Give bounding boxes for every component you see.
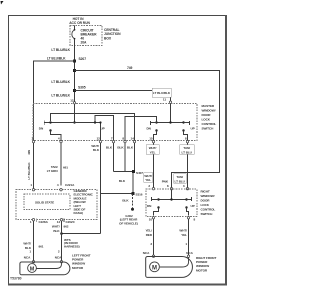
svg-text:UP: UP xyxy=(101,127,105,131)
svg-text:BLK: BLK xyxy=(106,146,113,150)
svg-text:M: M xyxy=(152,265,157,271)
svg-text:DASH): DASH) xyxy=(74,211,83,215)
splice S207 xyxy=(73,60,76,63)
svg-text:NCA: NCA xyxy=(143,251,150,255)
wire BLK pin14 xyxy=(134,143,136,172)
svg-text:962: 962 xyxy=(64,224,69,228)
svg-text:BLK: BLK xyxy=(122,199,129,203)
svg-text:T53780: T53780 xyxy=(10,277,22,281)
svg-text:S316: S316 xyxy=(136,192,143,196)
svg-text:SWITCH: SWITCH xyxy=(202,127,215,131)
master window/door lock control switch (dashed box) xyxy=(33,104,197,141)
UP fixed contact xyxy=(189,121,191,125)
svg-text:LT BLU/BLK: LT BLU/BLK xyxy=(153,91,171,95)
svg-text:M: M xyxy=(30,266,35,272)
svg-text:MOTOR: MOTOR xyxy=(72,266,84,270)
svg-text:749: 749 xyxy=(127,66,133,70)
svg-text:WINDOW/: WINDOW/ xyxy=(202,109,216,113)
svg-text:UP: UP xyxy=(191,204,195,208)
svg-text:RIGHT: RIGHT xyxy=(201,190,210,194)
upper pivot bus xyxy=(51,114,135,141)
svg-text:WINDOW/: WINDOW/ xyxy=(201,194,215,198)
wire 749 (to right side, down and across to right window switch) xyxy=(75,71,220,189)
svg-text:BOX: BOX xyxy=(104,36,112,40)
svg-text:14: 14 xyxy=(131,137,135,141)
svg-text:499: 499 xyxy=(27,150,31,155)
pin 11 riser xyxy=(170,104,172,123)
wire LT BLU/BLK to pin 11 xyxy=(75,91,171,101)
svg-text:10: 10 xyxy=(149,218,153,222)
GEM generic electronic module (dashed box) xyxy=(16,190,97,220)
svg-text:BLK: BLK xyxy=(127,146,134,150)
wire WHT/BLK 961 (GEM to left motor) xyxy=(33,221,35,262)
svg-text:UP: UP xyxy=(191,127,195,131)
contact row xyxy=(44,122,100,124)
label HOT IN ACC OR RUN xyxy=(69,17,90,25)
wire LT BLU/BLK main feed (breaker down to master switch) xyxy=(74,46,76,102)
circuit breaker CB 40 20A symbol xyxy=(74,26,76,30)
svg-text:DOOR: DOOR xyxy=(201,199,211,203)
svg-text:BLK: BLK xyxy=(93,148,100,152)
left front power window motor xyxy=(20,262,70,275)
wire WHT/YEL (master to right window switch) xyxy=(153,143,155,188)
svg-text:BLK: BLK xyxy=(119,179,126,183)
svg-text:MASTER: MASTER xyxy=(202,104,215,108)
master switch bottom pin connectors xyxy=(32,140,188,142)
svg-text:961: 961 xyxy=(39,244,44,248)
splice S407 (BLK grounds join) xyxy=(114,171,135,173)
svg-text:LT BLU/BLK: LT BLU/BLK xyxy=(27,162,31,180)
svg-text:CONTROL: CONTROL xyxy=(201,208,216,212)
svg-text:YEL: YEL xyxy=(150,150,156,154)
svg-text:CONTROL: CONTROL xyxy=(202,122,217,126)
svg-text:RED: RED xyxy=(146,233,153,237)
feed riser xyxy=(74,104,76,123)
BLK wire joins GEM output (to left motor) xyxy=(62,233,101,235)
wire BLK pin8 xyxy=(124,143,126,172)
svg-text:14: 14 xyxy=(57,220,61,224)
svg-text:S207: S207 xyxy=(79,57,87,61)
contact bus xyxy=(157,122,184,124)
svg-text:MOTOR: MOTOR xyxy=(196,268,208,272)
svg-text:DOOR: DOOR xyxy=(202,113,212,117)
wire TAN/LT BLU (master to right window switch) xyxy=(187,143,189,188)
svg-text:S407: S407 xyxy=(136,171,143,175)
svg-text:NCA: NCA xyxy=(55,255,62,259)
wire WHT/YEL (right switch to motor) xyxy=(188,219,190,256)
svg-text:WHT/: WHT/ xyxy=(52,224,60,228)
DN fixed contact xyxy=(43,121,45,125)
svg-text:BLK: BLK xyxy=(53,229,60,233)
svg-text:LT BLU/BLK: LT BLU/BLK xyxy=(51,48,70,52)
wire LT BLU/BLK branch to master switch pin 1 xyxy=(34,61,75,141)
svg-text:WHT/: WHT/ xyxy=(23,241,31,245)
drop to pin 12b xyxy=(100,123,102,141)
svg-text:OF VEHICLE): OF VEHICLE) xyxy=(119,221,138,225)
splice S305 and branch to master switch pin 11 xyxy=(73,89,76,92)
svg-text:LOCK: LOCK xyxy=(202,118,211,122)
svg-text:661: 661 xyxy=(63,166,68,170)
corner registration mark xyxy=(1,1,4,5)
svg-text:11: 11 xyxy=(163,98,166,102)
lower contacts to outputs xyxy=(155,129,157,131)
svg-text:LT BLU/BLK: LT BLU/BLK xyxy=(51,94,70,98)
right window/door lock control switch (dashed box) xyxy=(146,189,197,217)
svg-text:C228A: C228A xyxy=(39,220,49,224)
svg-text:NCA: NCA xyxy=(24,255,31,259)
boxed wire label LT BLU/BLK at pin 11 xyxy=(152,88,171,97)
central junction box (dashed) xyxy=(70,26,102,46)
wire BLK pin12 (switch ground) xyxy=(100,143,102,234)
wire BLK pin7 xyxy=(113,143,115,172)
svg-text:12: 12 xyxy=(97,137,101,141)
lower contact and jog to pin 4 xyxy=(49,129,51,131)
svg-text:C221A: C221A xyxy=(65,183,75,187)
svg-text:20A: 20A xyxy=(81,41,88,45)
svg-text:LT GRN: LT GRN xyxy=(47,169,59,173)
solid state module (inner dashed box) xyxy=(24,194,70,210)
svg-text:HARNESS): HARNESS) xyxy=(64,245,80,249)
jog loop to pin 7 xyxy=(95,116,114,141)
svg-text:S305: S305 xyxy=(78,86,86,90)
svg-text:SOLID STATE: SOLID STATE xyxy=(35,201,54,205)
master switch bottom pins xyxy=(31,137,187,141)
svg-text:YEL/: YEL/ xyxy=(145,229,152,233)
wire TAN/LT GRN 661 (to GEM) xyxy=(60,143,62,186)
svg-text:ACC OR RUN: ACC OR RUN xyxy=(69,21,90,25)
DN fixed contact xyxy=(150,121,152,125)
splice S316 xyxy=(101,193,134,195)
svg-text:PNK: PNK xyxy=(162,180,169,184)
svg-text:NCA: NCA xyxy=(186,251,193,255)
wire YEL/RED (right switch to motor) xyxy=(153,219,155,256)
svg-text:SWITCH: SWITCH xyxy=(201,212,214,216)
svg-text:LT BLU: LT BLU xyxy=(175,179,186,183)
svg-text:WHT/: WHT/ xyxy=(179,229,187,233)
wire WHT/BLK 962 (GEM to left motor) xyxy=(61,221,63,262)
svg-text:LT BLU/BLK: LT BLU/BLK xyxy=(51,80,70,84)
svg-text:LOCK: LOCK xyxy=(201,203,210,207)
svg-text:YEL: YEL xyxy=(181,233,187,237)
ground jog to pin 8 xyxy=(125,117,157,141)
junction dot wire 749 branch xyxy=(73,69,76,72)
svg-text:BLK: BLK xyxy=(117,146,124,150)
wire LT BLU/BLK 499 (to GEM) xyxy=(33,143,35,189)
page border frame xyxy=(8,15,226,17)
svg-text:LT BLU/BLK: LT BLU/BLK xyxy=(47,57,66,61)
svg-text:C202C: C202C xyxy=(66,220,76,224)
wire label LT BLU/BLK (x4) xyxy=(47,48,71,98)
svg-text:YEL: YEL xyxy=(145,178,151,182)
svg-text:LT BLU: LT BLU xyxy=(182,150,193,154)
svg-text:15: 15 xyxy=(149,137,153,141)
ground G402 xyxy=(132,194,134,208)
right switch internal xyxy=(171,190,173,200)
right front power window motor xyxy=(146,257,193,278)
